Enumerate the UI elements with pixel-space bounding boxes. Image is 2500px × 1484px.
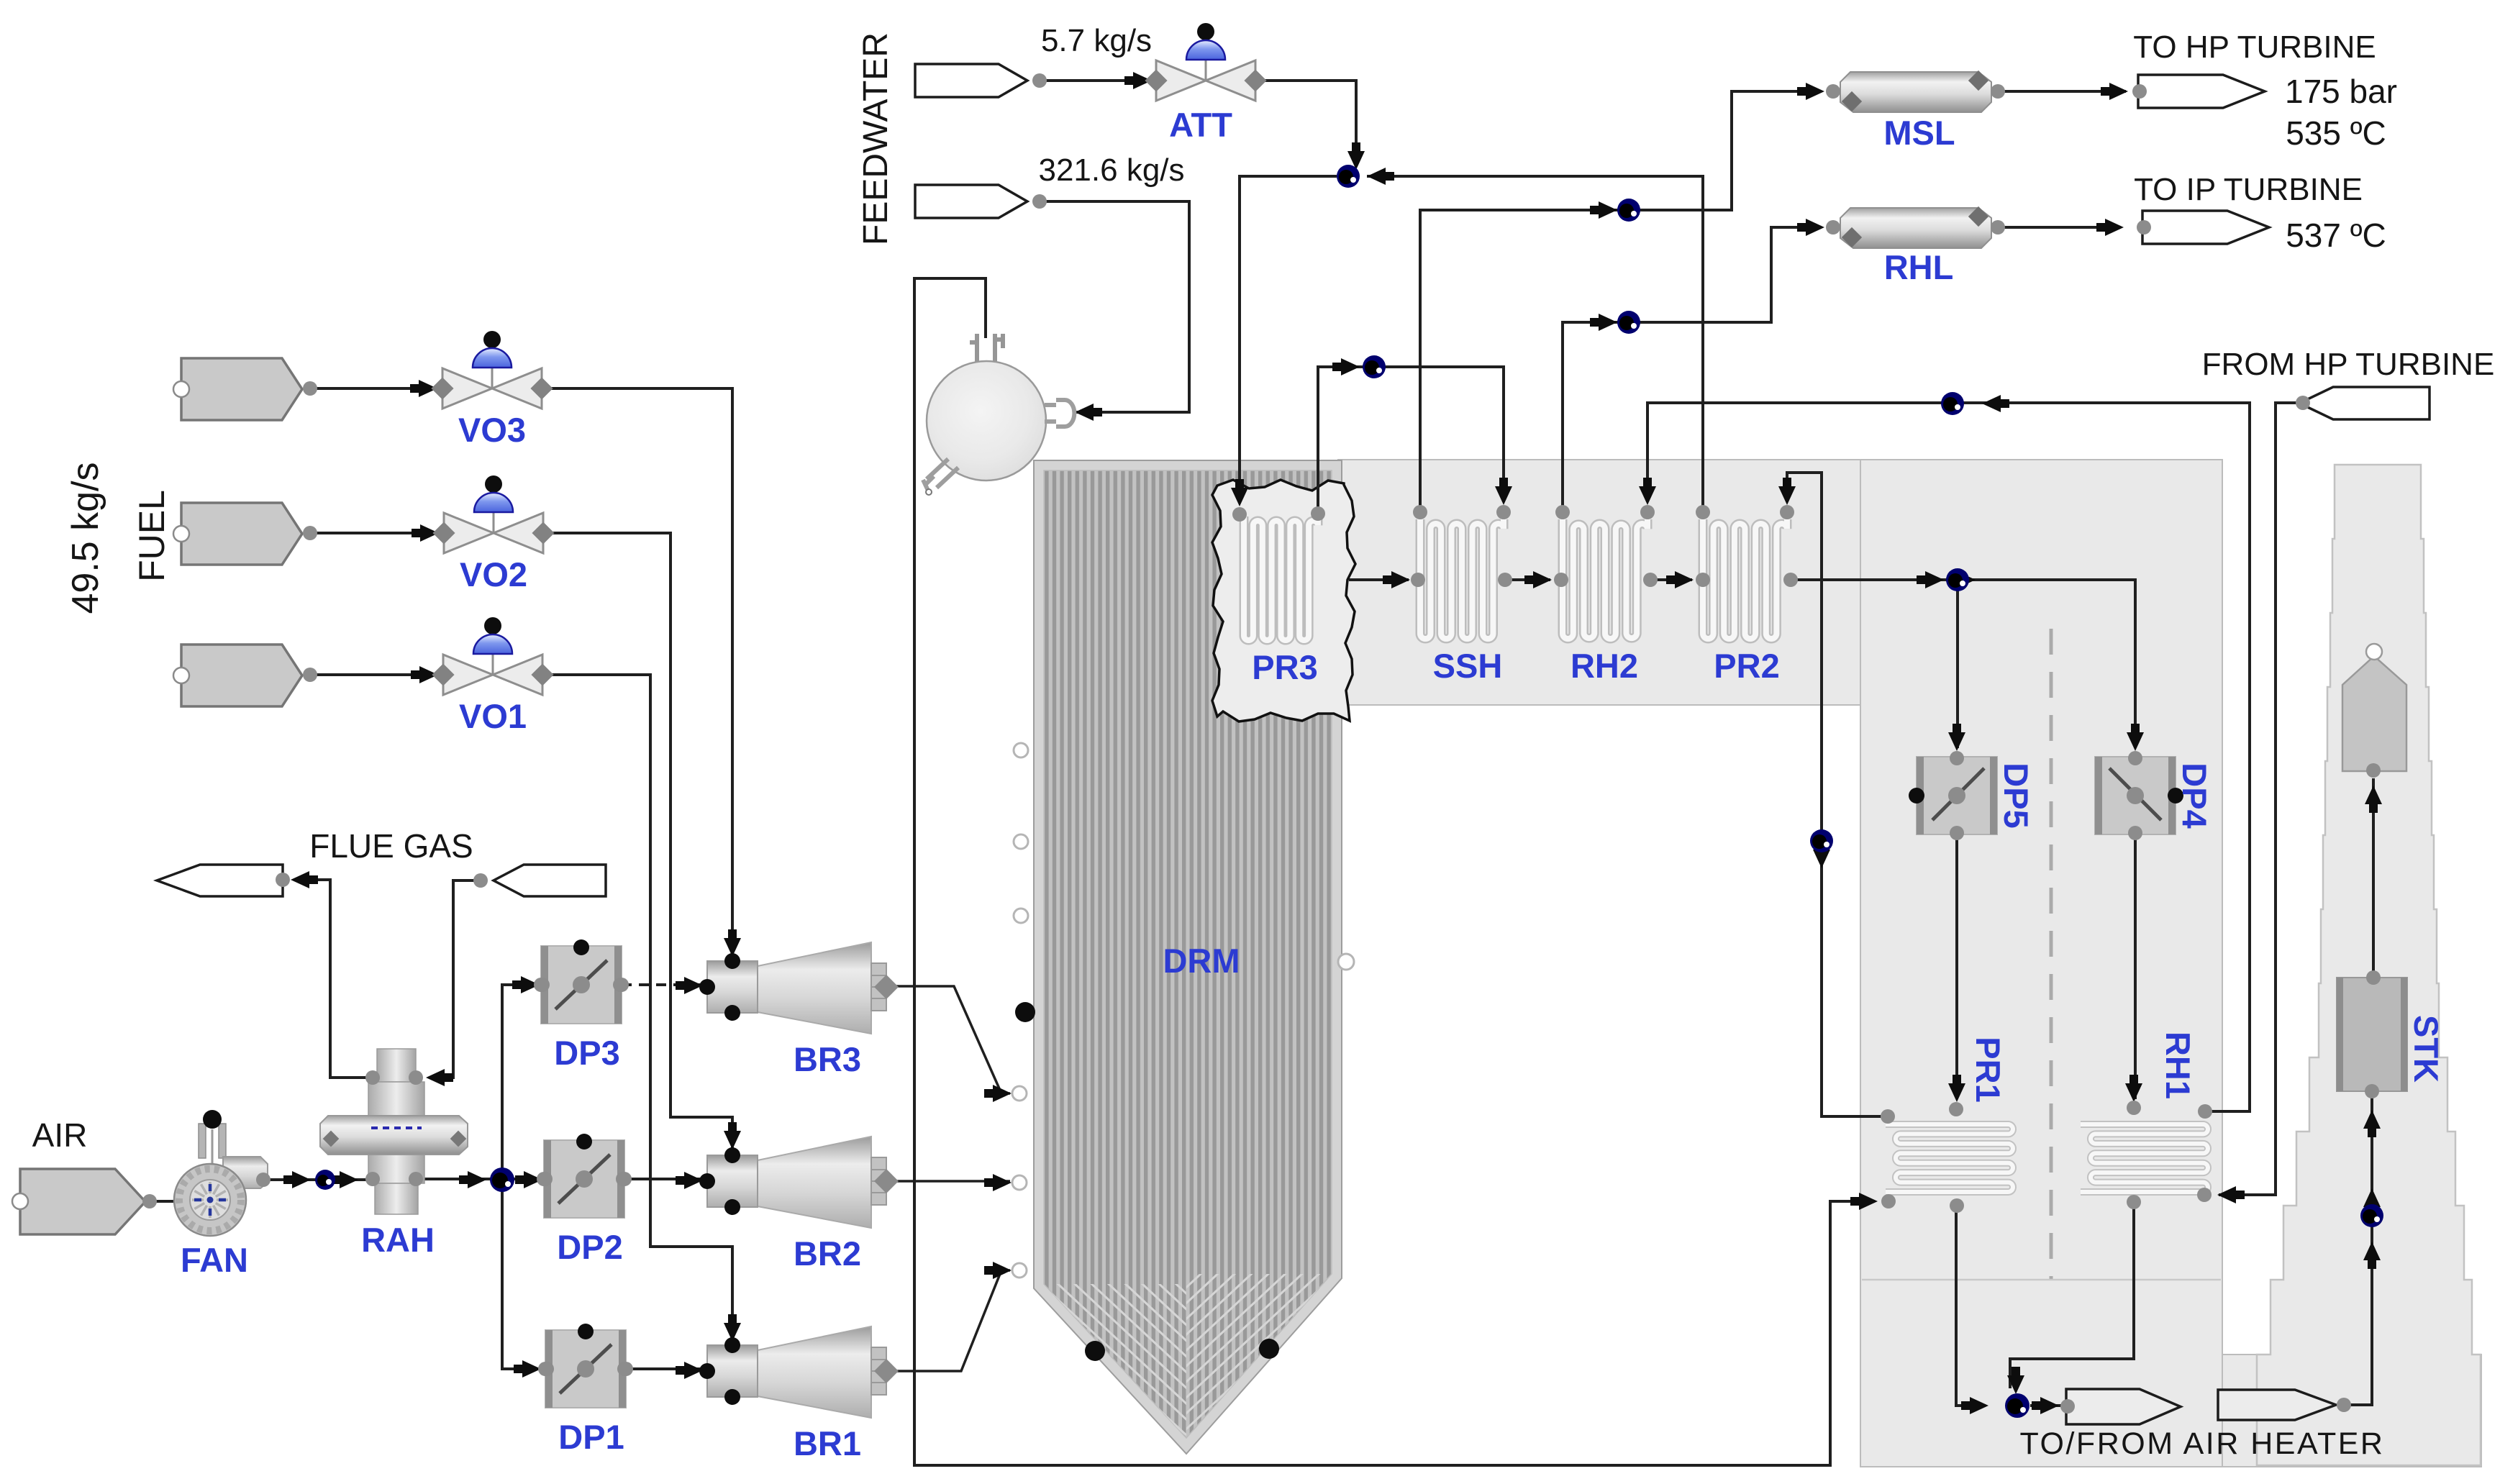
svg-text:DP3: DP3	[554, 1034, 619, 1072]
wire tee to DP1	[502, 1179, 540, 1369]
fuel input 3	[181, 645, 302, 706]
svg-text:DRM: DRM	[1163, 942, 1240, 980]
furnace DRM	[1034, 460, 1342, 1454]
reheater RH2 coil	[1563, 519, 1647, 639]
svg-text:FEEDWATER: FEEDWATER	[857, 32, 895, 245]
main steam line MSL	[1840, 72, 1991, 112]
svg-text:FROM HP TURBINE: FROM HP TURBINE	[2202, 347, 2495, 382]
wire RH2 outlet to RHL	[1563, 227, 1822, 512]
svg-text:TO/FROM AIR HEATER: TO/FROM AIR HEATER	[2020, 1426, 2385, 1461]
wire RHL to IP turbine	[2000, 226, 2121, 229]
wire PR1 outlet riser to PR2 inlet	[1787, 473, 1888, 1116]
svg-text:PR3: PR3	[1252, 648, 1317, 686]
wire junction to PR3 inlet	[1240, 176, 1337, 504]
svg-text:DP4: DP4	[2176, 763, 2214, 828]
wire DP2 to BR2	[624, 1178, 701, 1180]
stack silencer STK	[2337, 978, 2407, 1091]
wire tee to DP3	[502, 985, 538, 1179]
reheater RH1 coil	[2081, 1124, 2208, 1192]
point on SSH-MSL line	[1617, 199, 1640, 222]
economizer PR1 coil	[1886, 1124, 2013, 1192]
valve ATT	[1145, 23, 1266, 101]
reheat line RHL	[1840, 208, 1991, 248]
to HP turbine pentagon	[2138, 75, 2265, 108]
damper DP2	[538, 1134, 630, 1218]
fuel input 1	[181, 358, 302, 420]
from HP turbine pentagon	[2299, 387, 2429, 419]
svg-text:DP5: DP5	[1997, 763, 2035, 828]
wire AIR to FAN	[150, 1200, 176, 1203]
superheater SSH coil	[1420, 519, 1504, 639]
wire FAN to RAH	[263, 1178, 370, 1181]
wire drum to economizer PR1	[914, 278, 1875, 1465]
wire flue gas inlet to RAH	[429, 880, 481, 1078]
svg-text:FUEL: FUEL	[132, 490, 172, 582]
wire SSH to RH2	[1505, 578, 1550, 581]
damper DP1	[540, 1324, 632, 1408]
wire SSH outlet to MSL	[1420, 91, 1822, 512]
stack riser point	[2360, 1204, 2383, 1227]
svg-text:TO HP TURBINE: TO HP TURBINE	[2133, 29, 2376, 65]
valve VO2	[432, 475, 554, 553]
svg-text:PR2: PR2	[1714, 647, 1779, 685]
svg-text:VO3: VO3	[458, 411, 526, 449]
stack STK body	[2257, 465, 2481, 1465]
svg-text:49.5 kg/s: 49.5 kg/s	[65, 462, 106, 614]
point on RH1-RH2 line	[1941, 392, 1964, 415]
PR3 torn-edge region	[1212, 480, 1355, 721]
wire PR3 outlet to SSH inlet (top)	[1318, 367, 1504, 514]
svg-text:BR1: BR1	[794, 1424, 861, 1462]
svg-text:535 ºC: 535 ºC	[2286, 114, 2386, 152]
stack outlet pentagon	[2342, 656, 2406, 771]
svg-text:PR1: PR1	[1969, 1037, 2007, 1102]
flow arrows	[410, 380, 437, 397]
wire pump to air-heater outlet	[2030, 1404, 2068, 1407]
svg-text:RH1: RH1	[2159, 1032, 2197, 1099]
burner BR3	[699, 942, 899, 1034]
wire PR2 outlet to junction	[1367, 176, 1703, 512]
svg-text:DP2: DP2	[557, 1228, 622, 1266]
svg-text:5.7 kg/s: 5.7 kg/s	[1041, 23, 1152, 58]
svg-text:STK: STK	[2407, 1015, 2445, 1083]
panel divider line	[1862, 1279, 2221, 1281]
svg-text:BR3: BR3	[794, 1040, 861, 1078]
right flue-gas panel	[1860, 460, 2222, 1467]
svg-text:VO2: VO2	[460, 555, 527, 593]
tee point to DP5/DP4	[1946, 568, 1969, 591]
wire DP4 to RH1	[2134, 834, 2137, 1099]
wire RH1 return to air-heater pump	[2010, 1202, 2134, 1388]
wire feedwater spray to ATT	[1040, 79, 1151, 82]
wire fuel VO1 to BR1	[310, 673, 437, 676]
svg-text:FAN: FAN	[181, 1241, 248, 1279]
point on PR3-SSH line	[1363, 355, 1386, 378]
svg-text:RH2: RH2	[1571, 647, 1638, 685]
wire DP1 to BR1	[626, 1367, 701, 1370]
wire DP5 to PR1	[1955, 834, 1958, 1099]
wire RAH to damper tee	[416, 1178, 541, 1180]
air input	[20, 1169, 145, 1234]
burner BR2	[699, 1137, 899, 1228]
dashed zone divider	[2050, 629, 2053, 1280]
bottom flue strip under stack	[2222, 1355, 2481, 1467]
wire BR3 to furnace	[886, 986, 1010, 1093]
wire air-heater inlet to stack	[2344, 1091, 2372, 1405]
wire stack duct to outlet pentagon	[2372, 778, 2375, 978]
wire PR2 steam to dampers DP5/DP4	[1791, 580, 2135, 748]
junction point (ATT mixing)	[1337, 165, 1360, 188]
svg-text:AIR: AIR	[32, 1116, 88, 1154]
wire BR1 to furnace	[886, 1270, 1010, 1371]
furnace black nodes	[1015, 1002, 1035, 1022]
feedwater spray input	[915, 64, 1027, 97]
svg-text:DP1: DP1	[558, 1418, 624, 1456]
burner BR1	[699, 1326, 899, 1418]
valve VO3	[431, 331, 553, 409]
primary PR2 coil	[1703, 519, 1787, 639]
svg-text:175 bar: 175 bar	[2285, 73, 2397, 110]
wire fuel VO3 to BR3	[310, 387, 437, 390]
wire into PR3 over blob	[1238, 471, 1241, 502]
wire from HP turbine to RH1	[2219, 403, 2303, 1195]
from air heater pentagon	[2218, 1390, 2336, 1420]
svg-text:RAH: RAH	[361, 1221, 435, 1259]
svg-text:321.6 kg/s: 321.6 kg/s	[1038, 153, 1184, 188]
point on RH2-RHL line	[1617, 311, 1640, 334]
connection nodes	[303, 381, 317, 396]
wire RH1 outlet to RH2 inlet	[1647, 403, 2250, 1111]
wire BR2 to furnace	[886, 1180, 1010, 1183]
svg-text:MSL: MSL	[1883, 114, 1955, 152]
to air heater pentagon	[2066, 1389, 2181, 1424]
wire PR3 to SSH	[1349, 578, 1409, 581]
steam drum	[923, 309, 1074, 495]
svg-text:TO IP TURBINE: TO IP TURBINE	[2134, 172, 2363, 207]
wire DP3 to BR3 (dashed)	[622, 983, 701, 986]
heat-exchanger band panel	[1338, 460, 1860, 705]
wire MSL to HP turbine	[2000, 90, 2126, 93]
svg-text:ATT: ATT	[1169, 106, 1232, 144]
feedwater main input	[915, 185, 1027, 218]
damper DP5	[1909, 751, 1997, 840]
wire flue gas RAH to exit	[294, 880, 373, 1078]
fuel input 2	[181, 503, 302, 565]
damper DP3	[535, 939, 627, 1024]
svg-text:RHL: RHL	[1884, 248, 1954, 286]
flue gas inlet pentagon	[494, 865, 606, 896]
tee point air to dampers	[490, 1167, 514, 1192]
furnace wall stubs	[1014, 743, 1028, 757]
svg-text:FLUE GAS: FLUE GAS	[309, 827, 473, 865]
wire ATT to mixing junction	[1255, 81, 1356, 162]
wire PR1 to air-heater pump	[1956, 1206, 1986, 1406]
wire RH2 to PR2	[1650, 578, 1692, 581]
to IP turbine pentagon	[2142, 211, 2269, 244]
point on riser to PR1	[1810, 829, 1833, 852]
flue gas outlet pentagon	[157, 865, 283, 896]
fan FAN	[174, 1110, 271, 1236]
svg-text:VO1: VO1	[459, 697, 527, 735]
valve VO1	[432, 617, 553, 695]
wire fuel VO2 to BR2	[310, 532, 438, 534]
svg-text:BR2: BR2	[794, 1234, 861, 1273]
svg-text:537 ºC: 537 ºC	[2286, 217, 2386, 254]
air-heater outlet pump	[2005, 1393, 2029, 1418]
damper DP4	[2095, 751, 2183, 840]
svg-text:SSH: SSH	[1433, 647, 1503, 685]
rotary air heater RAH	[320, 1049, 468, 1214]
point after FAN	[315, 1170, 335, 1190]
wire feedwater main to drum	[1040, 201, 1189, 412]
